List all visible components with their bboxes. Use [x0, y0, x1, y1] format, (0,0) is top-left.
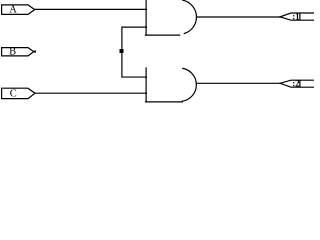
svg-text::2: :2	[292, 78, 300, 88]
svg-text:C: C	[10, 88, 17, 99]
svg-text:A: A	[9, 5, 17, 16]
svg-text:B: B	[9, 46, 16, 57]
svg-text::1: :1	[292, 11, 300, 21]
